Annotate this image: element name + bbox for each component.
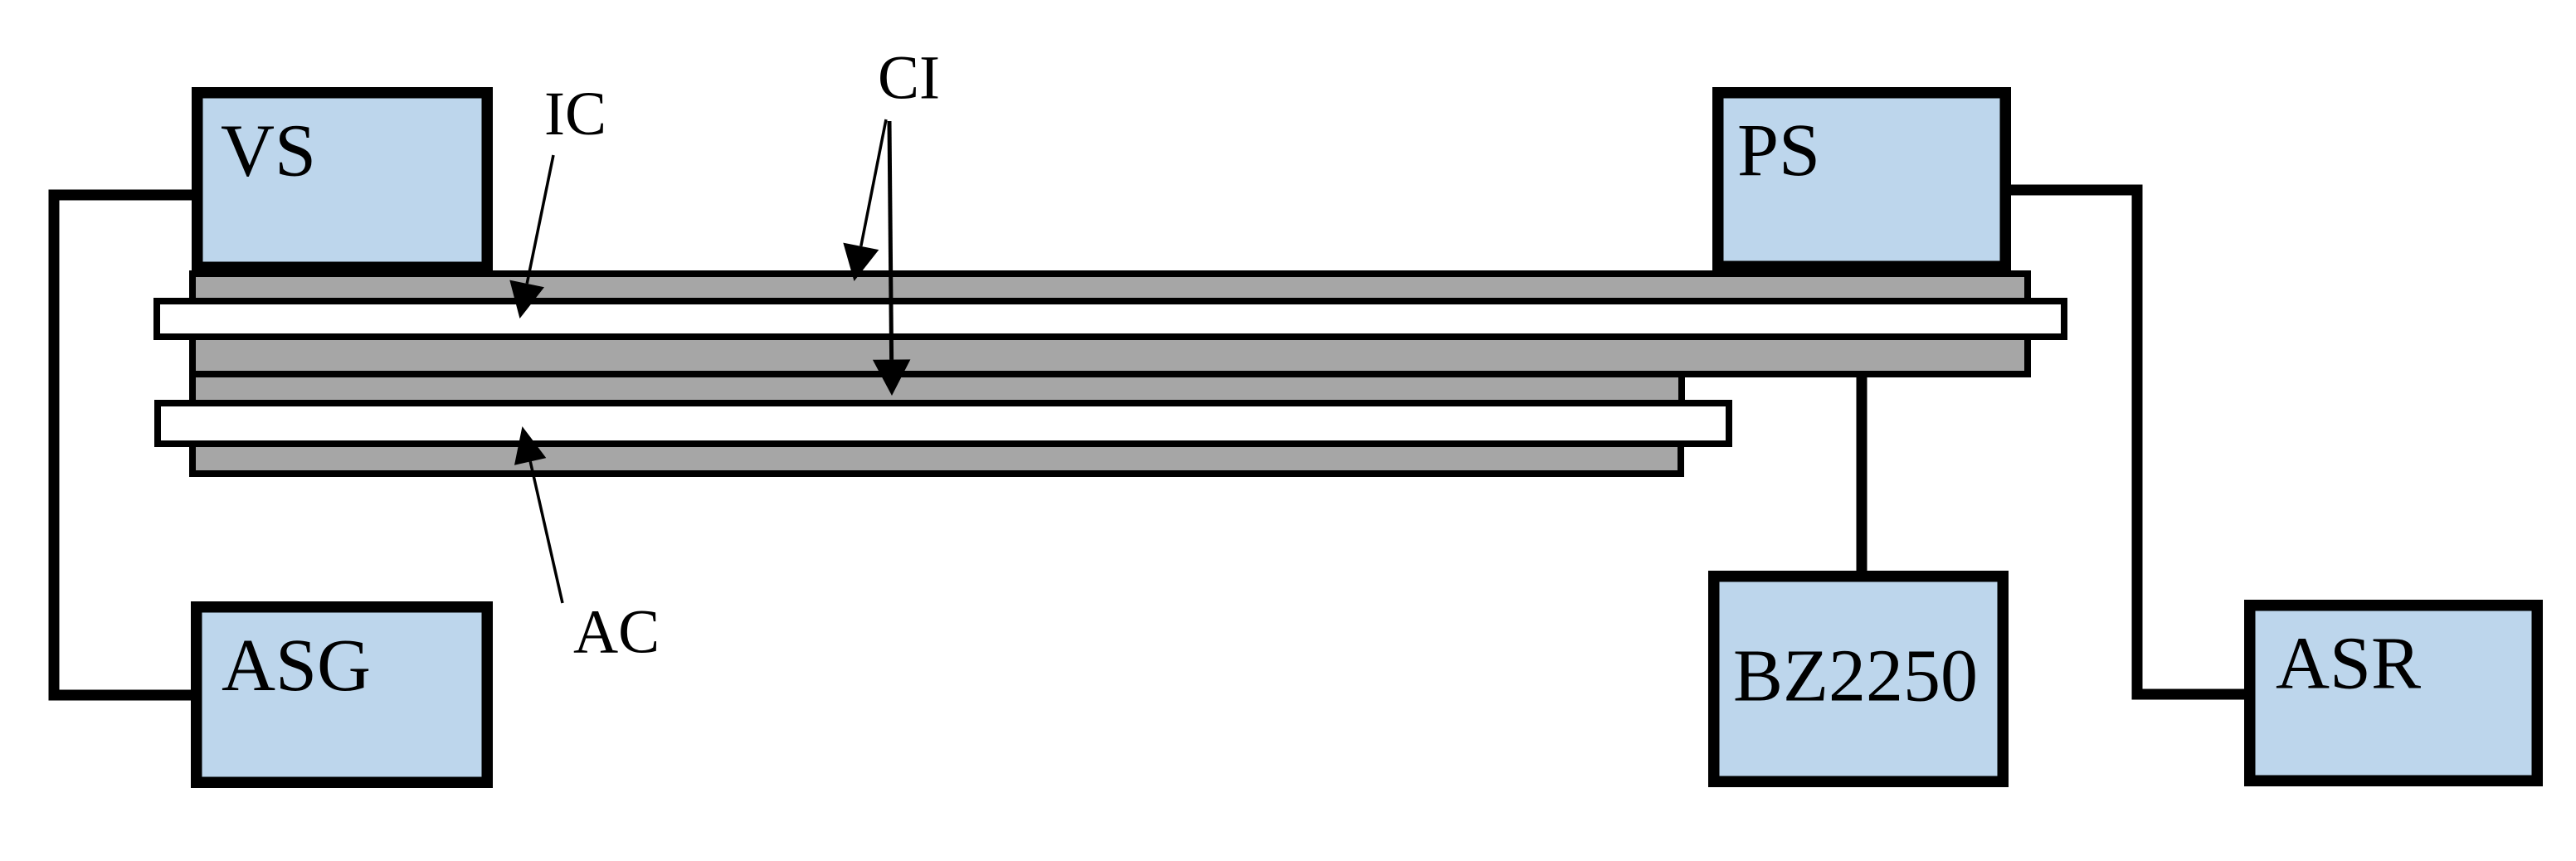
svg-text:CI: CI bbox=[878, 43, 940, 112]
svg-text:BZ2250: BZ2250 bbox=[1733, 635, 1978, 717]
svg-text:IC: IC bbox=[544, 80, 606, 148]
svg-text:VS: VS bbox=[221, 110, 316, 192]
svg-text:AC: AC bbox=[573, 598, 660, 667]
svg-text:ASG: ASG bbox=[222, 625, 371, 707]
svg-text:ASR: ASR bbox=[2276, 622, 2421, 704]
svg-text:PS: PS bbox=[1737, 109, 1820, 192]
